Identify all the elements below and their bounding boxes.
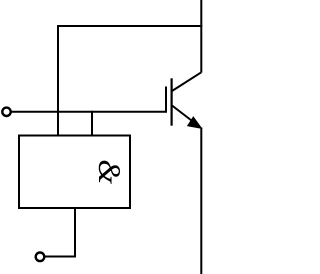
transistor Q1: emitter arrowhead [188,117,202,128]
transistor Q1: emitter diagonal with arrow [172,106,200,128]
svg-text:&: & [92,159,128,184]
wire: horizontal input wire from left terminal to transistor gate [11,111,167,113]
wire: second vertical stub from input wire to gate input pin 2 [91,111,93,137]
transistor Q1: gate bar (short left bar) [165,87,167,113]
terminal: input terminal circle (left) [2,108,10,116]
terminal: input terminal circle (bottom) [36,252,45,261]
wire: bottom pin of AND gate going down [74,208,76,258]
wire: right vertical rail, bottom segment (emitter net) [200,128,202,274]
wire: left vertical from top wire down to gate input pin 1 [57,25,59,137]
transistor Q1: collector diagonal [172,72,201,91]
transistor Q1: body bar (long right bar) [171,78,173,125]
wire: bottom horizontal wire to bottom terminal [45,256,76,258]
wire: top horizontal wire from node A to rail [58,25,202,27]
wire: right vertical rail, top segment (collector net) [200,0,202,73]
gate U1: AND gate rectangle (IEC symbol, rotated) [19,136,130,209]
